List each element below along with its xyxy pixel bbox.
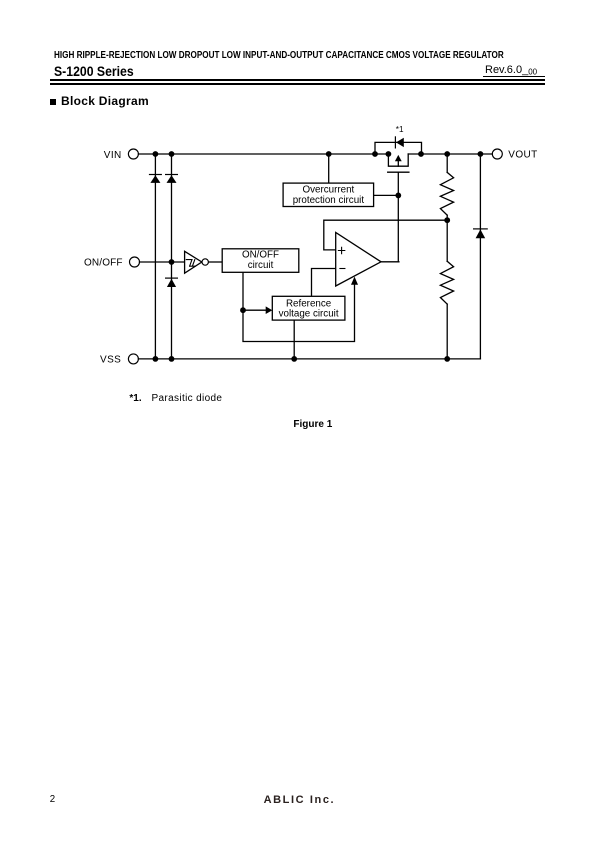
svg-text:protection circuit: protection circuit (293, 195, 365, 206)
wire divider top (446, 154, 448, 172)
svg-text:ON/OFF: ON/OFF (84, 258, 123, 269)
diode D2 (165, 174, 178, 183)
svg-text:VSS: VSS (100, 355, 121, 366)
svg-text:VIN: VIN (104, 150, 122, 161)
header title (54, 50, 504, 61)
header product name (54, 63, 134, 79)
svg-text:VOUT: VOUT (508, 150, 537, 161)
wire VSS rail (138, 358, 480, 360)
label overcurrent box (293, 185, 365, 207)
VIN terminal (128, 149, 138, 159)
label onoff box (242, 249, 279, 270)
ABLIC logo (264, 794, 336, 806)
note *1 Parasitic diode (129, 393, 141, 404)
label VIN (104, 150, 122, 161)
junction dot enable branch (240, 307, 246, 313)
wire overcurrent box top lead (328, 154, 330, 183)
thin rule under revision (483, 75, 545, 78)
svg-text:circuit: circuit (248, 260, 274, 271)
inverter U1 schmitt (185, 251, 209, 273)
transistor Q1 PMOS (388, 154, 409, 172)
diode D4 output (474, 229, 488, 238)
wire R2 to VSS (446, 304, 448, 359)
VSS terminal (128, 354, 138, 364)
wire inverter to ON/OFF circuit (209, 261, 223, 263)
wire between resistors (446, 215, 448, 261)
wire op-amp output (381, 261, 399, 263)
wire overcurrent box to gate line (374, 194, 399, 196)
page number (50, 794, 55, 805)
junction dot gate line (395, 193, 401, 199)
overcurrent protection circuit box (283, 183, 374, 206)
junction dots top rail (153, 151, 484, 157)
wire ON/OFF to inverter (140, 261, 185, 263)
wire enable path to op-amp (243, 277, 358, 342)
junction dot feedback tap (444, 217, 450, 223)
wire transistor drain to VOUT (408, 153, 492, 155)
resistor R1 (440, 172, 453, 215)
wire left diode line 2 (171, 154, 173, 359)
wire left diode line 1 (154, 154, 156, 359)
label ON/OFF (84, 258, 123, 269)
svg-text:*1: *1 (396, 125, 404, 134)
label *1 (396, 125, 404, 134)
op-amp U2 (336, 233, 381, 287)
label VSS (100, 355, 121, 366)
parasitic diode loop (375, 142, 422, 154)
op-amp plus sign (338, 247, 344, 253)
diode D3 (165, 278, 178, 288)
header revision (485, 64, 537, 77)
diode D1 (149, 174, 162, 183)
figure caption (293, 419, 332, 430)
VOUT terminal (492, 149, 502, 159)
wire VIN to transistor source (138, 153, 388, 155)
wire feedback tap (324, 220, 447, 250)
section heading Block Diagram (50, 99, 56, 105)
label VOUT (508, 150, 537, 161)
op-amp minus sign (340, 268, 345, 270)
wire output diode line (479, 154, 481, 359)
junction dots VSS rail (153, 356, 451, 362)
wire gate line (397, 172, 399, 262)
double rule lower (50, 83, 545, 85)
double rule upper (50, 79, 545, 81)
reference voltage circuit box (272, 296, 345, 320)
wire reference box bottom lead (293, 320, 295, 359)
svg-text:voltage circuit: voltage circuit (279, 309, 339, 320)
parasitic diode D5 (395, 137, 403, 148)
junction dot ON/OFF line (169, 259, 175, 265)
note text (152, 393, 223, 404)
svg-text:ON/OFF: ON/OFF (242, 249, 279, 260)
section heading text (61, 94, 149, 108)
wire to reference box arrow (243, 306, 272, 314)
ON/OFF circuit box (222, 249, 299, 272)
resistor R2 (440, 261, 453, 304)
ON/OFF terminal (130, 257, 140, 267)
wire ON/OFF circuit down lead (242, 272, 244, 310)
label reference box (279, 298, 339, 319)
wire inverting input to reference (312, 269, 336, 297)
svg-text:Overcurrent: Overcurrent (303, 185, 355, 196)
